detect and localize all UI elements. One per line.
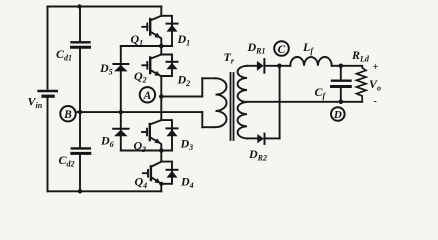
svg-text:Tr: Tr: [224, 50, 235, 66]
diode D2: [161, 55, 177, 77]
wire DR2 riser: [279, 66, 281, 139]
svg-text:Q1: Q1: [131, 32, 144, 48]
transistor Q4: [143, 151, 161, 192]
junction node A: [159, 94, 164, 99]
diode D4: [161, 162, 177, 184]
node D: [331, 107, 345, 121]
wire B rail to primary bottom: [201, 112, 203, 127]
svg-text:-: -: [374, 96, 377, 107]
capacitor Cf: [332, 66, 351, 102]
svg-text:Vo: Vo: [369, 77, 381, 93]
svg-text:D2: D2: [177, 73, 191, 89]
junction D5-D6 / B rail: [119, 110, 123, 114]
diode D1: [161, 16, 177, 46]
inductor Lf: [290, 57, 331, 66]
wire node A to primary: [161, 78, 202, 96]
svg-text:D4: D4: [180, 175, 194, 191]
junction Q1 emitter / Q2 collector / D5: [159, 44, 164, 49]
battery Vin: [39, 91, 57, 99]
transistor Q2: [142, 46, 161, 97]
svg-text:Cd1: Cd1: [56, 47, 72, 63]
capacitor Cd2: [72, 112, 90, 191]
wire secondary top tap: [247, 65, 257, 67]
svg-text:C: C: [278, 44, 286, 56]
wire bottom rail: [48, 190, 162, 192]
svg-text:B: B: [63, 109, 72, 121]
svg-text:Cf: Cf: [315, 85, 327, 101]
wire B rail: [76, 111, 202, 113]
wire left rail upper: [47, 7, 49, 89]
svg-text:Q4: Q4: [135, 175, 148, 191]
capacitor Cd1: [72, 7, 90, 113]
wire secondary bottom tap: [247, 137, 257, 139]
junction Cd2 / bottom rail: [78, 189, 82, 193]
transformer primary winding: [202, 78, 226, 127]
junction Cf bottom: [339, 100, 344, 105]
junction top rail / Cd1: [77, 4, 81, 8]
junction Q4 emitter / D4: [159, 182, 163, 186]
svg-text:D1: D1: [177, 32, 191, 48]
svg-text:D6: D6: [100, 134, 114, 150]
svg-text:DR1: DR1: [247, 40, 266, 56]
svg-text:D5: D5: [99, 61, 113, 77]
svg-text:Q3: Q3: [134, 139, 147, 155]
rectifier diode DR1: [257, 59, 290, 73]
wire Lf to load: [332, 65, 363, 67]
transformer core: [231, 73, 234, 140]
diode D3: [161, 120, 177, 150]
clamp diode D6: [113, 112, 128, 150]
svg-text:Vin: Vin: [28, 95, 43, 111]
wire Q1-Q2 junction row: [121, 45, 172, 47]
clamp diode D5: [113, 46, 128, 112]
transformer secondary winding: [238, 66, 247, 139]
junction Q3 emitter / Q4 collector / D6: [159, 148, 164, 153]
svg-text:D: D: [333, 109, 342, 121]
wire top rail: [48, 6, 162, 8]
transistor Q3: [142, 97, 161, 151]
svg-text:DR2: DR2: [248, 147, 267, 163]
node B: [60, 106, 75, 121]
svg-text:Cd2: Cd2: [59, 153, 75, 169]
resistor RLd: [357, 66, 367, 102]
svg-text:+: +: [373, 62, 379, 73]
svg-text:Q2: Q2: [134, 69, 147, 85]
svg-text:D3: D3: [180, 137, 194, 153]
wire secondary center tap / output return rail: [247, 101, 362, 103]
svg-text:Lf: Lf: [302, 40, 314, 56]
junction Cf top: [339, 64, 344, 69]
node A: [140, 87, 155, 102]
wire left rail lower: [47, 98, 49, 191]
svg-text:RLd: RLd: [351, 48, 370, 64]
junction Cd1-Cd2 / B rail: [78, 110, 82, 114]
junction DR1 out / DR2 riser: [277, 64, 282, 69]
svg-text:A: A: [143, 90, 152, 102]
transistor Q1: [142, 7, 161, 47]
rectifier diode DR2: [257, 134, 279, 144]
node C: [274, 41, 289, 56]
wire Q3-Q4 junction row: [121, 150, 172, 152]
